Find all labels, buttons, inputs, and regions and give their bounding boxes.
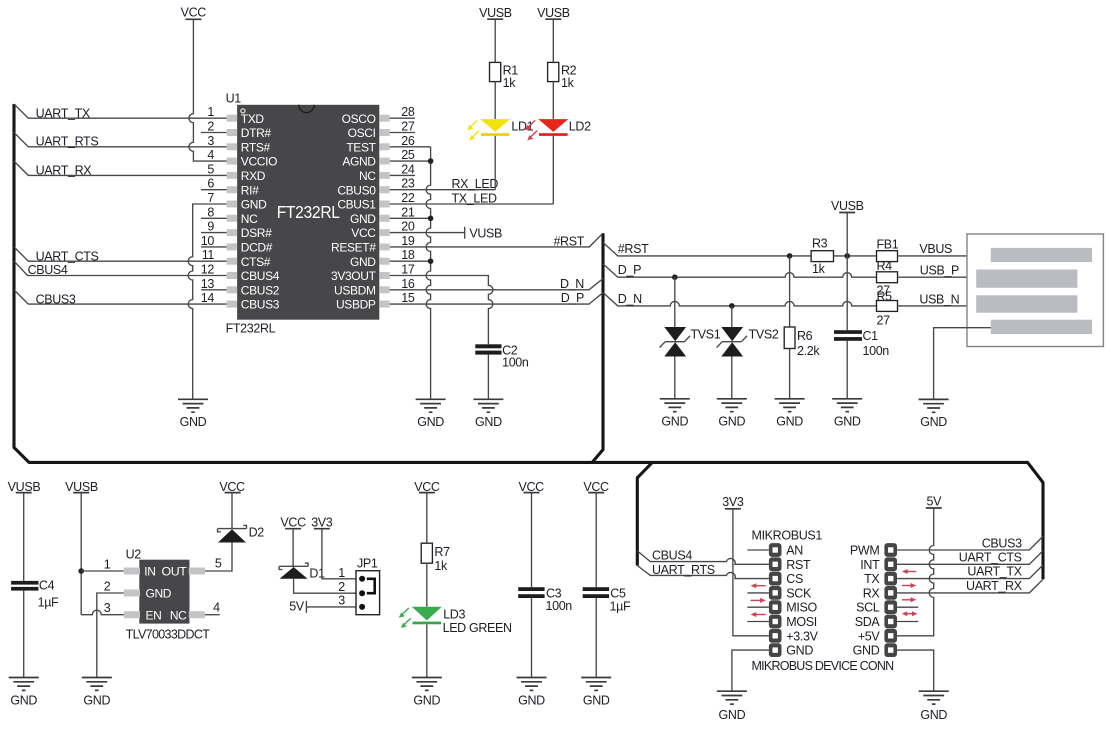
- resistor R7: [421, 543, 432, 563]
- svg-text:GND: GND: [350, 212, 376, 226]
- ground under LD3: [412, 678, 442, 691]
- wire U1 pin24 stub: [390, 174, 415, 176]
- svg-text:SDA: SDA: [855, 615, 881, 629]
- svg-text:22: 22: [401, 191, 415, 205]
- wire VUSB down to VBUS line: [846, 213, 848, 256]
- svg-text:1k: 1k: [434, 559, 448, 573]
- section border mikrobus top-left corner: [637, 462, 652, 565]
- svg-text:DTR#: DTR#: [241, 126, 272, 140]
- USB pad VBUS: [991, 248, 1092, 262]
- svg-text:GND: GND: [853, 644, 880, 658]
- ground under AGND bus: [416, 399, 446, 412]
- wire TVS1 to ground: [674, 357, 676, 399]
- svg-text:CBUS4: CBUS4: [652, 549, 692, 563]
- wire U1 pin18 GND: [390, 260, 431, 262]
- ground under TVS2: [717, 399, 747, 412]
- svg-text:2: 2: [338, 580, 345, 594]
- arrow right RX: [902, 597, 916, 602]
- wire U1 pin26 TEST to AGND/GND vertical: [390, 146, 431, 148]
- svg-text:2: 2: [104, 579, 111, 593]
- svg-text:LD3: LD3: [443, 607, 465, 621]
- USB pad D-: [976, 270, 1077, 288]
- svg-text:10: 10: [201, 234, 215, 248]
- net tap VUSB at pin20: [464, 227, 466, 239]
- svg-text:CBUS1: CBUS1: [337, 198, 376, 212]
- svg-text:VUSB: VUSB: [831, 199, 864, 213]
- svg-text:GND: GND: [83, 694, 110, 708]
- wire UART_TX from mikrobus TX: [897, 565, 1043, 579]
- wire C3 to ground: [531, 598, 533, 678]
- capacitor C4: [11, 581, 38, 591]
- wire UART_RTS to mikrobus CS with hop: [637, 566, 769, 579]
- svg-text:IN: IN: [144, 565, 155, 579]
- svg-text:GND: GND: [518, 694, 545, 708]
- svg-text:3V3: 3V3: [722, 495, 744, 509]
- svg-text:15: 15: [401, 291, 415, 305]
- U1 pin stubs right: [379, 115, 389, 308]
- header MIKROBUS1 right column: [884, 543, 897, 657]
- power VUSB above C4: [8, 480, 41, 494]
- section border divider right of U1 block: [593, 233, 603, 462]
- svg-text:EN: EN: [146, 608, 162, 622]
- arrow both SDA: [902, 611, 917, 616]
- svg-text:OSCI: OSCI: [348, 126, 376, 140]
- svg-text:#RST: #RST: [618, 242, 649, 256]
- U1 pin stubs left: [227, 115, 237, 308]
- wire 3V3 to +3.3V pin: [733, 509, 769, 636]
- svg-text:R7: R7: [434, 545, 450, 559]
- wire U1 pin13 stub: [201, 289, 227, 291]
- svg-text:RI#: RI#: [241, 183, 259, 197]
- svg-text:U1: U1: [226, 92, 242, 106]
- wire LD2 to TX_LED: [552, 136, 554, 204]
- svg-text:OUT: OUT: [162, 565, 188, 579]
- svg-text:GND: GND: [776, 414, 803, 428]
- wire D_N right section with hops: [603, 293, 877, 306]
- capacitor C3: [518, 587, 544, 598]
- wire MISO stub: [747, 606, 769, 608]
- wire CBUS4 entry to pin12: [14, 261, 227, 275]
- svg-text:UART_TX: UART_TX: [967, 565, 1022, 579]
- power VCC above C3: [519, 480, 545, 494]
- power VCC top: [181, 5, 207, 19]
- svg-text:CBUS4: CBUS4: [241, 269, 280, 283]
- svg-text:USB_N: USB_N: [919, 292, 959, 306]
- wire R6 from #RST: [789, 256, 791, 327]
- junction node pin18: [428, 258, 434, 264]
- wire U2 pin1 IN: [81, 570, 124, 572]
- svg-text:RTS#: RTS#: [241, 140, 271, 154]
- svg-text:5: 5: [207, 162, 214, 176]
- ground under USB shield: [919, 399, 949, 412]
- svg-text:3: 3: [104, 601, 111, 615]
- svg-text:D2: D2: [249, 526, 265, 540]
- svg-text:GND: GND: [920, 415, 947, 429]
- wire VCC to D2 cathode: [231, 493, 233, 529]
- power VUSB right: [831, 199, 864, 213]
- svg-text:C5: C5: [610, 586, 626, 600]
- svg-text:25: 25: [401, 148, 415, 162]
- svg-text:9: 9: [207, 220, 214, 234]
- svg-text:UART_TX: UART_TX: [36, 106, 91, 120]
- svg-text:GND: GND: [583, 694, 610, 708]
- svg-text:CBUS3: CBUS3: [36, 293, 76, 307]
- svg-text:23: 23: [401, 177, 415, 191]
- power VUSB above R2: [537, 6, 570, 20]
- svg-text:C4: C4: [39, 579, 55, 593]
- wire C1 from VBUS: [846, 256, 848, 330]
- wire CBUS3 from mikrobus PWM: [897, 536, 1043, 550]
- svg-text:27: 27: [877, 313, 891, 327]
- LED LD2 red: [525, 119, 568, 140]
- svg-text:17: 17: [401, 263, 415, 277]
- svg-text:VBUS: VBUS: [919, 242, 952, 256]
- svg-text:4: 4: [213, 601, 220, 615]
- wire TX_LED pin22 to LD2: [390, 203, 554, 205]
- svg-text:GND: GND: [920, 708, 947, 722]
- svg-text:FT232RL: FT232RL: [226, 322, 276, 336]
- svg-text:UART_CTS: UART_CTS: [959, 551, 1022, 565]
- svg-text:D_N: D_N: [618, 292, 642, 306]
- svg-text:NC: NC: [241, 212, 258, 226]
- wire R7 to LD3: [426, 563, 428, 607]
- svg-text:1k: 1k: [503, 76, 517, 90]
- svg-text:18: 18: [401, 248, 415, 262]
- svg-text:1µF: 1µF: [610, 599, 631, 613]
- svg-text:1: 1: [207, 105, 214, 119]
- capacitor C2: [475, 344, 501, 354]
- svg-text:VCC: VCC: [414, 480, 440, 494]
- header MIKROBUS1 left pin labels: [786, 544, 818, 658]
- svg-text:TEST: TEST: [346, 140, 376, 154]
- ground mikrobus left: [717, 691, 747, 704]
- wire VUSB to R1: [494, 19, 496, 62]
- junction node pin25: [428, 158, 434, 164]
- wire VCC to C5: [595, 493, 597, 588]
- svg-text:6: 6: [207, 177, 214, 191]
- svg-text:SCL: SCL: [856, 601, 880, 615]
- wire pin17 3V3OUT to C2: [390, 276, 493, 345]
- svg-text:CBUS2: CBUS2: [241, 283, 280, 297]
- svg-text:CBUS0: CBUS0: [337, 183, 376, 197]
- wire pin15 USBDP to border: [390, 293, 603, 304]
- wire U2 pin2 GND to ground: [97, 593, 124, 678]
- wire VUSB to C4: [23, 493, 25, 581]
- wire UART_RX entry to pin5: [14, 161, 227, 175]
- svg-text:GND: GND: [10, 694, 37, 708]
- svg-text:1: 1: [104, 557, 111, 571]
- junction node TVS2 tap: [729, 303, 735, 309]
- svg-text:5: 5: [215, 556, 222, 570]
- wire MOSI stub: [747, 621, 769, 623]
- svg-text:TXD: TXD: [241, 112, 265, 126]
- svg-text:UART_RTS: UART_RTS: [652, 563, 715, 577]
- svg-text:TX: TX: [864, 572, 880, 586]
- wire U1 pin6 stub: [201, 189, 227, 191]
- svg-text:USBDM: USBDM: [334, 283, 376, 297]
- svg-text:26: 26: [401, 134, 415, 148]
- wire U1 pin9 stub: [201, 232, 227, 234]
- svg-text:CBUS4: CBUS4: [28, 263, 68, 277]
- svg-text:12: 12: [201, 263, 215, 277]
- TVS diode TVS2: [717, 327, 747, 357]
- svg-text:RX: RX: [863, 586, 881, 600]
- svg-text:MIKROBUS DEVICE CONN: MIKROBUS DEVICE CONN: [752, 659, 895, 673]
- svg-text:SCK: SCK: [786, 586, 812, 600]
- wire C4 to ground: [23, 591, 25, 678]
- resistor R3: [811, 251, 833, 262]
- svg-text:AN: AN: [786, 544, 803, 558]
- svg-text:21: 21: [401, 205, 415, 219]
- diode D1: [279, 563, 308, 579]
- ground under C3: [517, 678, 547, 691]
- svg-text:100n: 100n: [546, 599, 573, 613]
- USB connector body: [967, 234, 1103, 347]
- svg-text:GND: GND: [241, 198, 267, 212]
- wire CBUS3 entry to pin14: [14, 290, 227, 304]
- wire VCC to R7: [426, 493, 428, 544]
- section border top-left block: [14, 104, 1043, 579]
- svg-text:GND: GND: [718, 414, 745, 428]
- svg-text:TX_LED: TX_LED: [452, 191, 497, 205]
- wire R4 to USB_P: [898, 276, 977, 278]
- wire AN stub: [747, 549, 769, 551]
- wire U2 pin4 NC stub: [205, 614, 220, 616]
- IC U1 FT232RL body: [237, 105, 379, 320]
- svg-text:5V: 5V: [289, 600, 305, 614]
- arrow left INT: [902, 569, 916, 574]
- svg-text:R6: R6: [797, 329, 813, 343]
- USB pad shield: [991, 320, 1092, 334]
- svg-text:D_P: D_P: [561, 291, 584, 305]
- wire R6 to ground: [789, 349, 791, 399]
- ground under R6: [775, 399, 805, 412]
- wire U1 pin25 AGND: [390, 160, 431, 162]
- svg-text:UART_RTS: UART_RTS: [36, 135, 99, 149]
- wire U1 pin2 stub: [201, 132, 227, 134]
- svg-text:MISO: MISO: [786, 601, 817, 615]
- arrow left SCK: [751, 583, 766, 588]
- power VUSB above R1: [479, 6, 512, 20]
- wire UART_CTS entry to pin11: [14, 247, 227, 261]
- svg-text:VCC: VCC: [351, 226, 376, 240]
- svg-text:UART_RX: UART_RX: [36, 164, 93, 178]
- svg-text:USBDP: USBDP: [336, 298, 376, 312]
- wire R1 to LD1: [494, 82, 496, 120]
- svg-text:VCC: VCC: [519, 480, 545, 494]
- svg-text:1µF: 1µF: [38, 596, 59, 610]
- wire C5 to ground: [595, 598, 597, 678]
- svg-text:14: 14: [201, 291, 215, 305]
- arrow right MISO: [751, 598, 766, 603]
- svg-text:1k: 1k: [812, 262, 826, 276]
- svg-text:2: 2: [207, 120, 214, 134]
- IC U2 TLV70033DDCT body: [124, 560, 205, 624]
- svg-text:1: 1: [338, 566, 345, 580]
- svg-text:VCCIO: VCCIO: [241, 155, 277, 169]
- junction node VUSB tap: [844, 253, 850, 259]
- wire 5V to JP1 pin3: [306, 606, 356, 608]
- svg-text:+5V: +5V: [858, 629, 881, 643]
- resistor R6: [784, 327, 795, 349]
- svg-text:2.2k: 2.2k: [797, 344, 820, 358]
- wire vertical AGND bus to ground with hops: [426, 147, 431, 399]
- svg-text:8: 8: [207, 205, 214, 219]
- svg-text:#RST: #RST: [553, 235, 584, 249]
- wire U1 pin8 stub: [201, 217, 227, 219]
- junction node U2 IN: [78, 568, 84, 574]
- svg-text:24: 24: [401, 162, 415, 176]
- wire SDA stub: [897, 621, 919, 623]
- svg-text:MOSI: MOSI: [786, 615, 817, 629]
- svg-text:GND: GND: [786, 644, 813, 658]
- wire R5 to USB_N: [898, 305, 977, 307]
- svg-text:D_P: D_P: [618, 263, 641, 277]
- svg-text:INT: INT: [860, 558, 880, 572]
- svg-text:11: 11: [202, 248, 215, 262]
- svg-text:CTS#: CTS#: [241, 255, 271, 269]
- svg-text:DSR#: DSR#: [241, 226, 272, 240]
- svg-text:R3: R3: [812, 237, 828, 251]
- diode D2: [218, 525, 247, 542]
- svg-text:NC: NC: [359, 169, 376, 183]
- svg-text:GND: GND: [146, 587, 172, 601]
- wire pin19 RESET# to border: [390, 233, 603, 247]
- svg-text:VUSB: VUSB: [8, 480, 41, 494]
- wire mikrobus right GND to ground: [897, 650, 934, 691]
- power VCC above D1: [280, 516, 306, 530]
- wire CBUS4 to mikrobus RST with hop: [637, 551, 769, 564]
- wire D_P right section with hops: [603, 264, 877, 277]
- wire USB shield to ground: [934, 328, 991, 400]
- ground under C5: [581, 678, 611, 691]
- svg-text:100n: 100n: [863, 344, 890, 358]
- wire VCC to C3: [531, 493, 533, 588]
- svg-text:27: 27: [401, 120, 415, 134]
- wire UART_RX from mikrobus RX: [897, 579, 1043, 593]
- ground under C4: [9, 678, 39, 691]
- svg-text:RX_LED: RX_LED: [452, 177, 499, 191]
- wire UART_TX entry to pin1: [14, 104, 227, 118]
- ground under pin7: [178, 399, 208, 412]
- svg-text:GND: GND: [475, 415, 502, 429]
- wire R2 to LD2: [552, 82, 554, 120]
- wire U2 pin5 OUT to D2: [205, 543, 232, 572]
- wire R3 to FB1: [834, 255, 877, 257]
- wire RX_LED pin23 to LD1: [390, 189, 496, 191]
- svg-text:GND: GND: [417, 415, 444, 429]
- svg-text:U2: U2: [126, 548, 142, 562]
- arrow right TX: [902, 583, 916, 588]
- junction node TVS1 tap: [672, 274, 678, 280]
- wire D1 anode to JP1 pin2: [294, 579, 356, 593]
- svg-text:3: 3: [338, 593, 345, 607]
- svg-text:VCC: VCC: [219, 480, 245, 494]
- junction node R6 tap: [787, 253, 793, 259]
- wire C2 to ground: [487, 355, 489, 400]
- power VCC above C5: [583, 480, 609, 494]
- wire VUSB to R2: [552, 19, 554, 62]
- wire U1 pin27 stub: [390, 132, 415, 134]
- wire 3V3 to JP1 pin1: [322, 529, 356, 579]
- LED LD3 green: [399, 607, 442, 628]
- wire U1 pin10 stub: [201, 246, 227, 248]
- svg-text:D_N: D_N: [560, 277, 584, 291]
- svg-text:MIKROBUS1: MIKROBUS1: [752, 528, 823, 542]
- wire pin16 USBDM to border: [390, 279, 603, 290]
- svg-text:100n: 100n: [502, 355, 529, 369]
- svg-text:RST: RST: [786, 558, 811, 572]
- svg-text:VCC: VCC: [583, 480, 609, 494]
- svg-text:3: 3: [207, 134, 214, 148]
- junction node pin21: [428, 216, 434, 222]
- LED LD1 yellow: [467, 119, 510, 140]
- svg-text:13: 13: [201, 277, 215, 291]
- power 5V mikrobus: [926, 494, 942, 508]
- U1 pin names left: [241, 112, 280, 312]
- jumper JP1: [356, 571, 380, 615]
- resistor R2: [548, 62, 559, 81]
- svg-text:19: 19: [401, 234, 415, 248]
- TVS diode TVS1: [660, 327, 690, 357]
- svg-text:16: 16: [401, 277, 415, 291]
- svg-text:4: 4: [207, 148, 214, 162]
- svg-text:VUSB: VUSB: [469, 226, 502, 240]
- svg-text:JP1: JP1: [357, 557, 378, 571]
- svg-text:GND: GND: [834, 414, 861, 428]
- wire VCC to D1 cathode: [292, 529, 294, 567]
- wire LD1 to RX_LED: [494, 136, 496, 190]
- svg-text:LED GREEN: LED GREEN: [443, 621, 512, 635]
- svg-text:GND: GND: [719, 708, 746, 722]
- wire TVS2 to D_N: [731, 306, 733, 327]
- power 3V3 above JP1: [311, 516, 333, 530]
- svg-text:GND: GND: [350, 255, 376, 269]
- svg-text:RXD: RXD: [241, 169, 266, 183]
- svg-text:DCD#: DCD#: [241, 241, 273, 255]
- U1 pin names right: [331, 112, 377, 312]
- wire UART_CTS from mikrobus INT: [897, 551, 1043, 565]
- svg-text:20: 20: [401, 220, 415, 234]
- wire TVS2 to ground: [731, 357, 733, 399]
- wire FB1 to USB VBUS: [898, 255, 991, 257]
- svg-text:GND: GND: [661, 414, 688, 428]
- resistor R4: [877, 272, 898, 283]
- USB pad D+: [976, 295, 1077, 312]
- svg-text:FT232RL: FT232RL: [277, 202, 341, 222]
- svg-text:USB_P: USB_P: [920, 263, 959, 277]
- header MIKROBUS1 left column: [769, 543, 782, 657]
- svg-text:FB1: FB1: [877, 237, 899, 251]
- wire C1 to ground: [846, 341, 848, 399]
- wire VUSB to U2 IN and EN with hop: [81, 493, 124, 615]
- svg-text:VUSB: VUSB: [65, 480, 98, 494]
- ferrite bead FB1: [877, 251, 898, 262]
- svg-text:3V3: 3V3: [311, 516, 333, 530]
- svg-text:CBUS3: CBUS3: [982, 537, 1022, 551]
- wire U1 pin7 GND to ground with hops: [188, 204, 226, 399]
- resistor R1: [490, 62, 501, 81]
- svg-text:3V3OUT: 3V3OUT: [331, 269, 377, 283]
- wire UART_RTS entry to pin3: [14, 133, 227, 147]
- svg-text:UART_RX: UART_RX: [966, 579, 1023, 593]
- ground under TVS1: [660, 399, 690, 412]
- svg-text:28: 28: [401, 105, 415, 119]
- power 3V3 mikrobus: [722, 495, 744, 509]
- wire 5V to +5V pin with hops: [897, 508, 934, 636]
- svg-text:R4: R4: [877, 259, 893, 273]
- wire SCL stub: [897, 606, 919, 608]
